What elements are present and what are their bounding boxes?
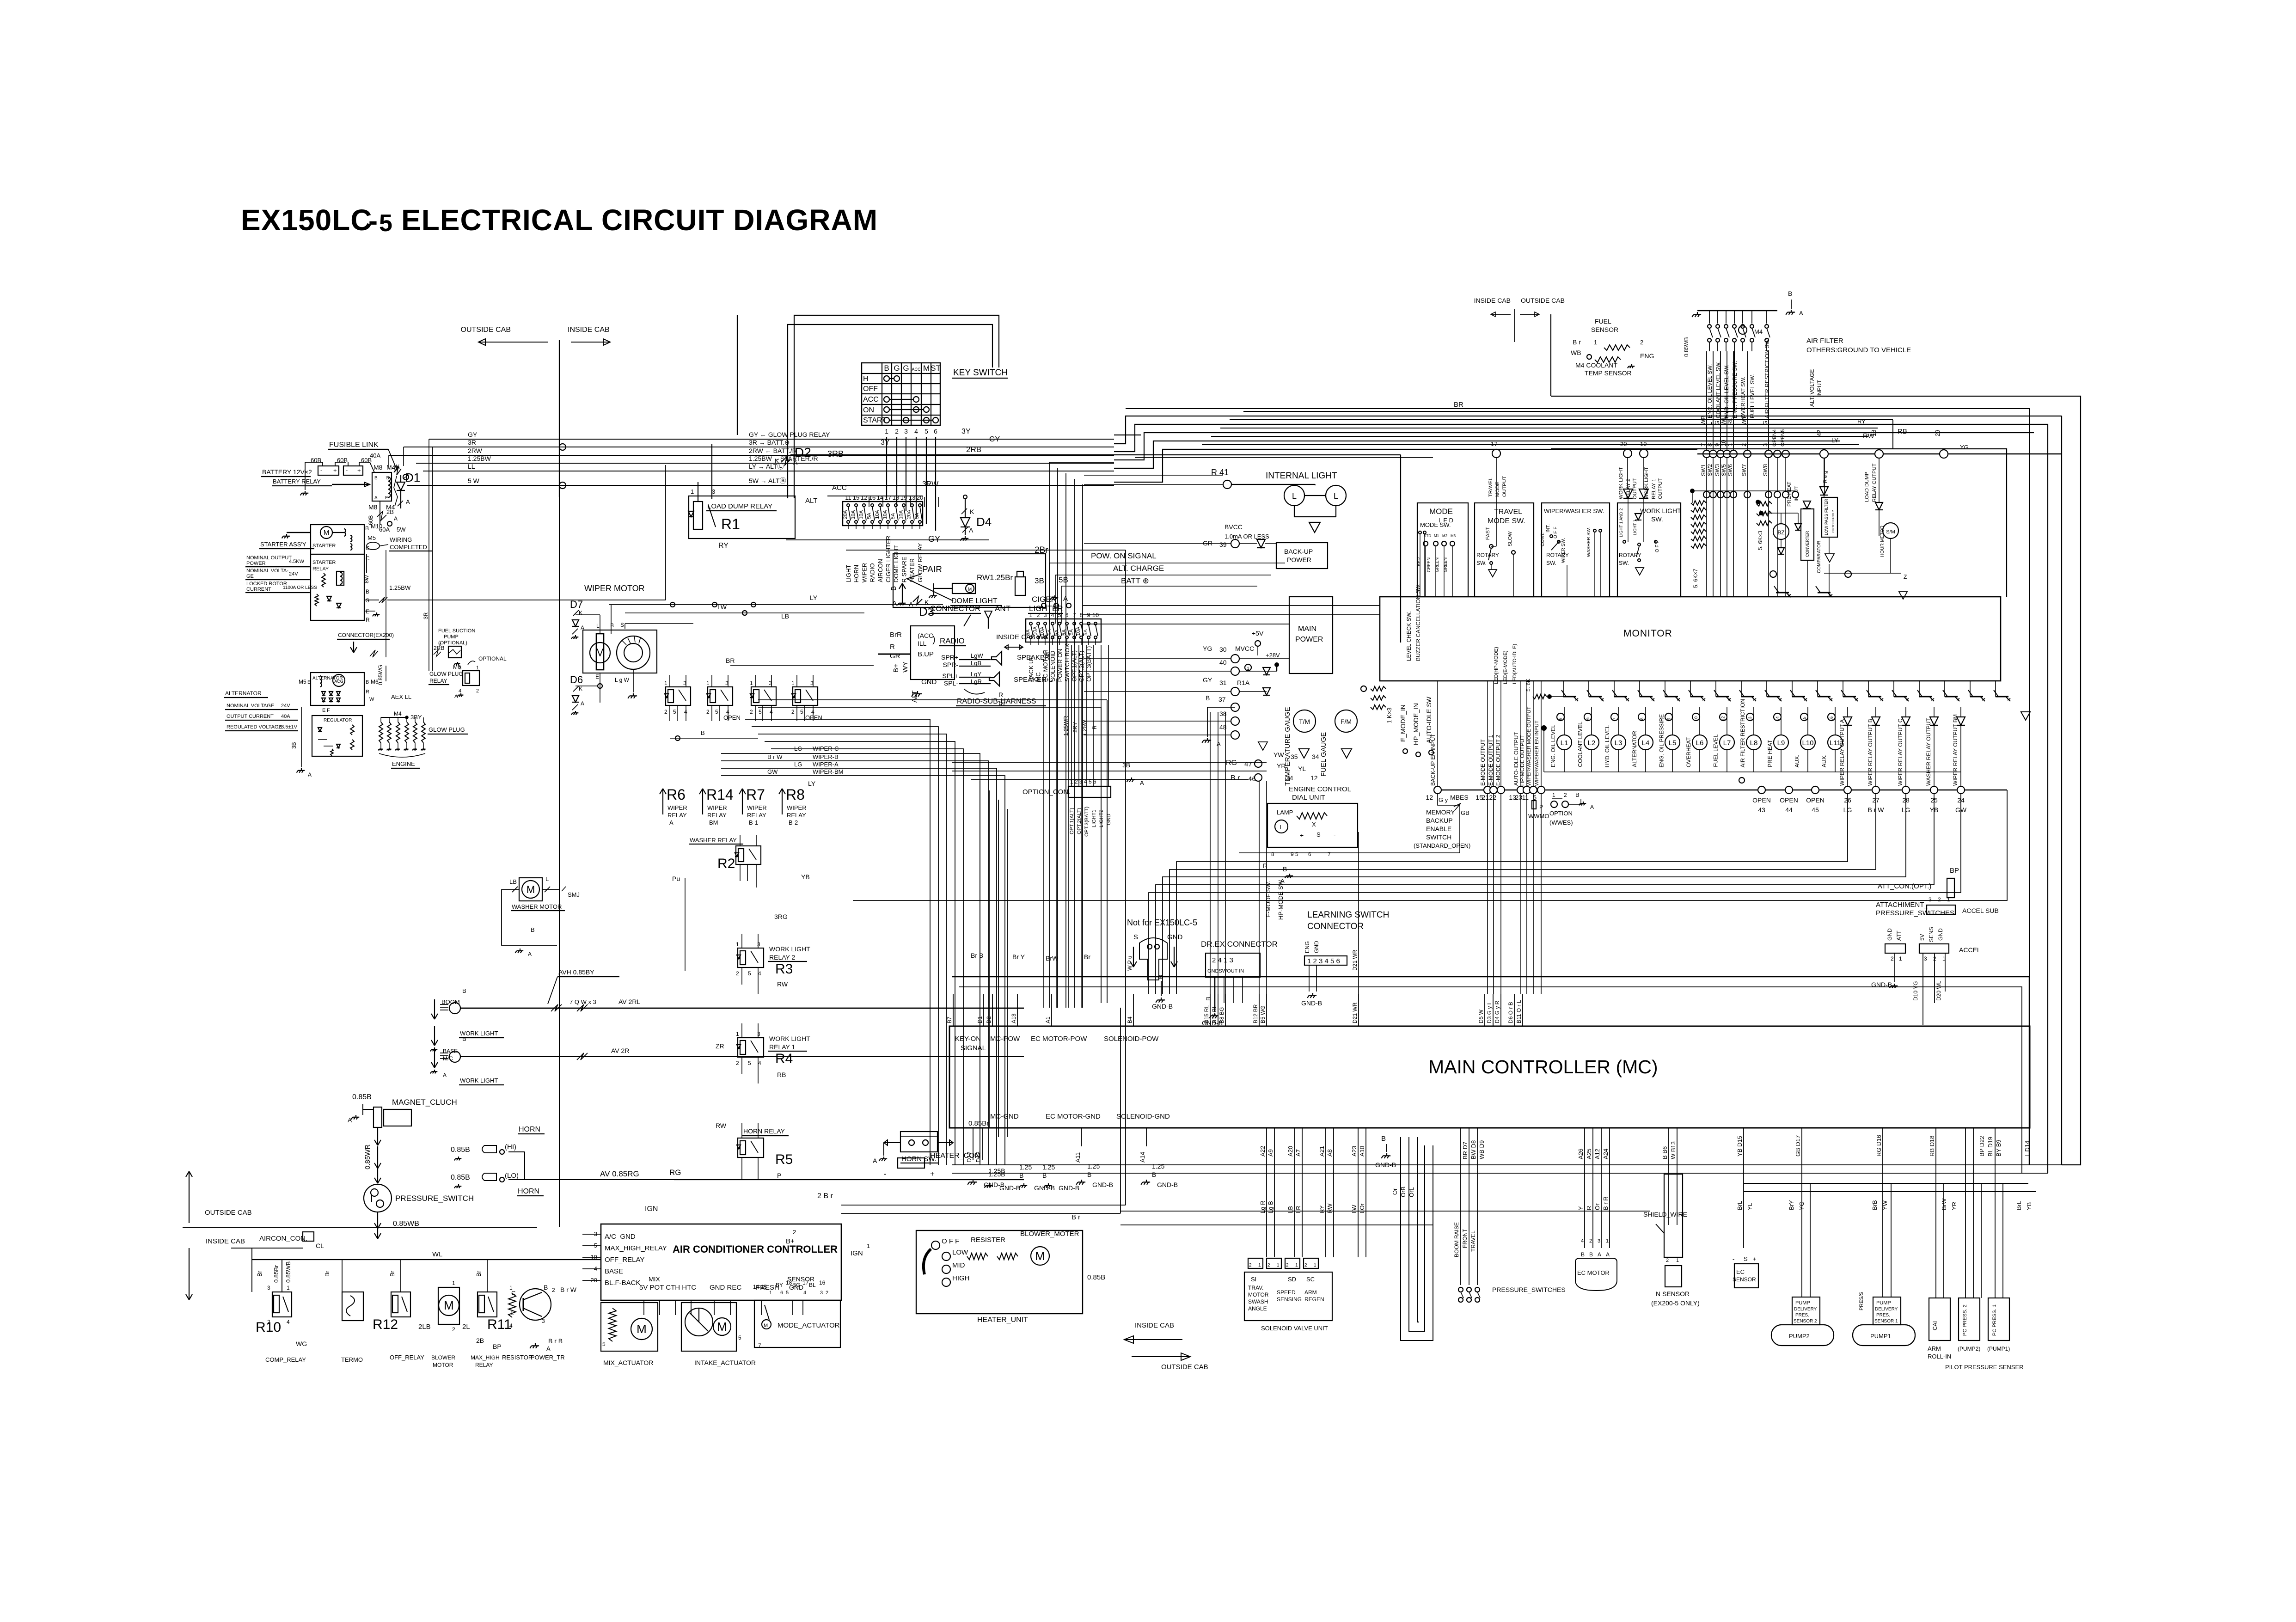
svg-text:R7: R7 [746, 786, 765, 803]
wire lower band rails [952, 1165, 2062, 1225]
svg-text:M: M [444, 1298, 454, 1312]
wire extra top band [1083, 409, 2029, 1026]
svg-text:LED(E-MODE): LED(E-MODE) [1503, 650, 1508, 684]
option WWES connectors [1439, 791, 1594, 826]
svg-text:OPEN5: OPEN5 [1780, 429, 1786, 447]
svg-text:WIPER: WIPER [787, 804, 807, 811]
svg-text:BATTERY RELAY: BATTERY RELAY [273, 478, 321, 485]
svg-text:ACCEL SUB: ACCEL SUB [1962, 907, 1999, 914]
svg-text:M: M [1035, 1249, 1045, 1263]
svg-text:K: K [579, 686, 582, 692]
svg-text:R5: R5 [775, 1152, 793, 1167]
svg-text:LY: LY [1831, 437, 1838, 444]
svg-text:1.25BW: 1.25BW [468, 455, 491, 462]
svg-text:MEMORY: MEMORY [1426, 808, 1455, 816]
svg-text:NOMINAL VOLTA-: NOMINAL VOLTA- [246, 568, 288, 574]
svg-text:11: 11 [845, 494, 851, 501]
svg-text:GB D17: GB D17 [1794, 1135, 1801, 1157]
svg-text:HIGH: HIGH [952, 1274, 970, 1282]
svg-text:5A: 5A [890, 513, 896, 519]
svg-text:SOLENOID-GND: SOLENOID-GND [1116, 1113, 1170, 1120]
svg-text:20A: 20A [843, 510, 848, 519]
svg-text:5V: 5V [1919, 934, 1925, 941]
svg-text:E-MODE OUTPUT: E-MODE OUTPUT [1480, 739, 1486, 786]
svg-text:13: 13 [909, 494, 915, 501]
svg-text:2: 2 [1589, 1238, 1592, 1244]
fusible link [328, 441, 409, 506]
svg-text:2: 2 [664, 709, 667, 715]
svg-text:(PUMP1): (PUMP1) [1987, 1346, 2010, 1352]
svg-text:GLOW PLUG: GLOW PLUG [429, 671, 463, 677]
svg-text:ATT: ATT [1896, 930, 1902, 941]
svg-text:E: E [307, 679, 311, 685]
svg-text:X: X [1312, 821, 1316, 828]
svg-text:0.85WB: 0.85WB [393, 1220, 419, 1228]
wiper relay output diodes [1839, 707, 1965, 786]
svg-text:1: 1 [867, 1243, 870, 1249]
svg-text:POW. ON SIGNAL: POW. ON SIGNAL [1091, 551, 1157, 560]
svg-text:3BY: 3BY [410, 714, 422, 721]
svg-text:M8: M8 [373, 464, 383, 471]
svg-text:GY: GY [928, 534, 940, 544]
svg-text:+: + [930, 1169, 935, 1178]
svg-text:IGN: IGN [645, 1205, 658, 1213]
svg-text:RELAY 1: RELAY 1 [1651, 479, 1657, 499]
converter pre-heat input [1756, 482, 1829, 597]
svg-text:ACC: ACC [832, 484, 847, 492]
svg-text:2L: 2L [462, 1323, 470, 1331]
wire cab divider extension [559, 497, 560, 1227]
svg-text:LY: LY [808, 780, 816, 787]
svg-text:A: A [1590, 804, 1594, 810]
svg-text:S: S [366, 597, 369, 604]
svg-text:MAX_HIGH: MAX_HIGH [471, 1354, 500, 1361]
svg-text:LB: LB [1287, 1206, 1294, 1213]
svg-text:5: 5 [602, 1341, 606, 1347]
radio and speakers [878, 604, 1056, 706]
svg-text:B: B [1152, 1171, 1156, 1178]
svg-text:4: 4 [287, 1319, 290, 1325]
svg-text:3RW: 3RW [922, 480, 939, 488]
svg-text:5A: 5A [1083, 629, 1089, 636]
svg-text:SIGNAL: SIGNAL [961, 1044, 986, 1052]
svg-text:MIX_ACTUATOR: MIX_ACTUATOR [603, 1359, 653, 1366]
svg-text:3R: 3R [468, 439, 476, 446]
svg-text:RELAY: RELAY [475, 1362, 493, 1368]
svg-text:2RB: 2RB [966, 445, 981, 454]
svg-text:WORK LIGHT: WORK LIGHT [1618, 467, 1624, 499]
svg-text:3R → BATT.⊕: 3R → BATT.⊕ [749, 439, 790, 446]
svg-text:L5: L5 [1669, 739, 1677, 747]
svg-text:OPEN: OPEN [1780, 796, 1798, 804]
svg-text:1: 1 [736, 1031, 739, 1037]
svg-text:2: 2 [736, 970, 739, 977]
svg-text:44: 44 [1785, 806, 1793, 814]
svg-text:16: 16 [819, 1279, 826, 1286]
svg-text:40A: 40A [281, 714, 290, 719]
svg-text:DELIVERY: DELIVERY [1875, 1307, 1898, 1312]
svg-text:M: M [527, 884, 535, 895]
svg-text:OUTPUT: OUTPUT [1632, 478, 1638, 500]
svg-text:RW: RW [716, 1122, 727, 1129]
title text [241, 203, 878, 237]
svg-text:L4: L4 [1642, 739, 1650, 747]
svg-text:PUMP2: PUMP2 [1789, 1333, 1810, 1340]
svg-text:COOLANT LEVEL: COOLANT LEVEL [1577, 722, 1584, 767]
svg-text:D4: D4 [976, 515, 992, 529]
svg-text:SHIELD_WIRE: SHIELD_WIRE [1643, 1211, 1687, 1218]
svg-text:ENG. OIL LEVEL: ENG. OIL LEVEL [1550, 724, 1556, 767]
svg-text:EC MOTOR-GND: EC MOTOR-GND [1046, 1113, 1101, 1120]
svg-text:S: S [1133, 933, 1138, 941]
svg-text:1: 1 [1277, 1263, 1280, 1268]
not-for-EX150LC-5 connector [1127, 918, 1197, 1010]
svg-text:0.85WB: 0.85WB [285, 1261, 292, 1283]
svg-text:B: B [701, 729, 705, 736]
svg-text:AUTO-IDLE OUTPUT: AUTO-IDLE OUTPUT [1513, 732, 1519, 786]
svg-text:PILOT PRESSURE SENSER: PILOT PRESSURE SENSER [1945, 1364, 2024, 1371]
svg-text:8: 8 [1271, 851, 1274, 857]
svg-text:B11 O r L: B11 O r L [1516, 1000, 1522, 1023]
svg-text:35: 35 [1291, 753, 1298, 760]
svg-text:SW.: SW. [1651, 515, 1663, 523]
svg-text:A22: A22 [1259, 1146, 1266, 1157]
svg-text:GY: GY [1203, 676, 1212, 684]
svg-text:A: A [1799, 310, 1803, 317]
svg-text:RELAY: RELAY [787, 812, 806, 819]
svg-text:2B: 2B [386, 508, 394, 515]
cab wall arrows bottom-left [183, 1171, 537, 1300]
svg-text:RELAY OUTPUT: RELAY OUTPUT [1872, 463, 1877, 502]
svg-text:ANT: ANT [995, 604, 1010, 613]
svg-text:BrR: BrR [890, 631, 902, 639]
svg-text:DELIVERY: DELIVERY [1794, 1307, 1817, 1312]
svg-text:OUTSIDE CAB: OUTSIDE CAB [461, 326, 511, 334]
svg-text:SPL+: SPL+ [942, 672, 958, 679]
svg-text:EC: EC [1736, 1268, 1745, 1275]
intake actuator [681, 1303, 761, 1366]
svg-text:P: P [777, 1172, 781, 1179]
svg-text:B-1: B-1 [749, 819, 758, 826]
svg-text:2: 2 [1249, 1263, 1252, 1268]
svg-text:ON: ON [863, 406, 874, 414]
svg-text:B: B [365, 525, 369, 532]
svg-text:A24: A24 [1602, 1149, 1609, 1159]
svg-text:B: B [884, 364, 889, 373]
svg-text:REGULATOR: REGULATOR [324, 718, 352, 723]
svg-text:WB: WB [1571, 349, 1581, 356]
mode switch box [1416, 503, 1468, 597]
svg-text:WIPER: WIPER [861, 563, 868, 583]
svg-text:5A: 5A [1069, 629, 1074, 635]
svg-text:A: A [1217, 741, 1221, 747]
svg-text:COMPLETED: COMPLETED [390, 544, 427, 551]
svg-text:A10: A10 [1359, 1146, 1365, 1157]
svg-text:1: 1 [706, 680, 710, 686]
svg-text:W P u: W P u [1127, 956, 1133, 971]
svg-text:2: 2 [1304, 1263, 1307, 1268]
svg-text:0.85B: 0.85B [352, 1093, 372, 1101]
svg-text:3Y: 3Y [881, 439, 890, 447]
svg-text:BrL: BrL [2015, 1201, 2022, 1210]
svg-text:2: 2 [791, 709, 795, 715]
svg-text:LL: LL [468, 463, 475, 470]
svg-text:PRES/S: PRES/S [1859, 1292, 1864, 1310]
svg-text:OFF_RELAY: OFF_RELAY [390, 1354, 424, 1361]
svg-text:WASHER MOTOR: WASHER MOTOR [512, 903, 562, 910]
svg-text:SLOW: SLOW [1507, 531, 1513, 546]
svg-text:D4 G y R: D4 G y R [1494, 1000, 1500, 1023]
svg-text:WIPER: WIPER [747, 804, 767, 811]
svg-text:E: E [366, 608, 369, 615]
svg-text:2: 2 [1564, 792, 1567, 798]
svg-text:B: B [1575, 791, 1580, 798]
svg-text:ARM: ARM [1928, 1345, 1941, 1352]
svg-text:W: W [369, 697, 374, 702]
wire WL rail [252, 1248, 601, 1292]
svg-text:A: A [581, 700, 584, 707]
solenoid valve unit [1244, 1258, 1332, 1332]
svg-text:4: 4 [459, 688, 461, 694]
svg-text:A21: A21 [1318, 1146, 1325, 1157]
svg-text:R: R [1586, 1206, 1592, 1210]
svg-text:WORK LIGHT: WORK LIGHT [1640, 507, 1681, 514]
svg-text:ACG: ACG [334, 679, 343, 684]
svg-text:PUMP: PUMP [1876, 1300, 1891, 1306]
svg-text:MBES: MBES [1450, 794, 1469, 801]
diode D2 [775, 445, 844, 466]
svg-text:FUEL: FUEL [1595, 318, 1611, 325]
svg-text:12: 12 [1310, 774, 1318, 782]
main power [1202, 597, 1333, 750]
svg-text:5: 5 [925, 428, 928, 435]
svg-text:11: 11 [1522, 794, 1529, 801]
svg-text:B r: B r [1071, 1213, 1080, 1221]
svg-text:FUEL SUCTION: FUEL SUCTION [438, 628, 475, 634]
wire MC upper border pair [952, 977, 2029, 1173]
svg-text:B: B [366, 679, 369, 685]
svg-text:M: M [923, 364, 930, 373]
svg-text:ANGLE: ANGLE [1248, 1305, 1267, 1312]
svg-text:MIX: MIX [649, 1275, 661, 1283]
cab wall arrows bottom-center [1124, 1322, 1208, 1371]
svg-text:L: L [545, 875, 549, 882]
wire band A to right risers [737, 315, 2062, 1173]
svg-text:WG: WG [296, 1340, 307, 1347]
svg-text:ATT_CON.(OPT.): ATT_CON.(OPT.) [1878, 882, 1931, 890]
svg-text:+: + [1753, 1255, 1757, 1262]
svg-text:28.5±1V: 28.5±1V [278, 724, 298, 730]
svg-text:ALT. VOLTAGE: ALT. VOLTAGE [1809, 369, 1815, 407]
svg-text:BLOWER_MOTER: BLOWER_MOTER [1020, 1230, 1079, 1238]
svg-text:-: - [346, 467, 348, 474]
svg-text:FRONT: FRONT [1462, 1229, 1468, 1248]
svg-text:A: A [1606, 1251, 1610, 1258]
svg-text:WY: WY [1740, 416, 1747, 425]
svg-text:HORN: HORN [519, 1126, 540, 1133]
svg-text:2LB: 2LB [418, 1323, 431, 1331]
svg-text:BUZZER CANCELLATION SW.: BUZZER CANCELLATION SW. [1415, 583, 1421, 661]
svg-text:RY: RY [718, 542, 729, 550]
svg-text:M: M [764, 1323, 768, 1328]
svg-text:WIPER/WASHER EN INPUT: WIPER/WASHER EN INPUT [1534, 720, 1540, 786]
svg-text:INSIDE CAB: INSIDE CAB [206, 1237, 245, 1245]
svg-text:R1A: R1A [1237, 679, 1250, 686]
svg-text:E-MODE OUTPUT 1: E-MODE OUTPUT 1 [1488, 734, 1494, 786]
svg-text:4: 4 [758, 1060, 761, 1066]
svg-text:39: 39 [1219, 541, 1227, 548]
svg-text:K: K [970, 508, 974, 515]
svg-text:B-2: B-2 [789, 819, 798, 826]
svg-text:OPEN: OPEN [1806, 796, 1825, 804]
svg-text:1: 1 [1899, 955, 1902, 962]
svg-text:7: 7 [1612, 718, 1617, 720]
svg-text:Br: Br [324, 1270, 331, 1277]
svg-text:1: 1 [664, 680, 667, 686]
svg-text:A: A [669, 819, 673, 826]
svg-text:WIPER/WASHER SW.: WIPER/WASHER SW. [1544, 508, 1604, 514]
svg-text:4: 4 [758, 970, 761, 977]
svg-text:1: 1 [476, 665, 479, 671]
svg-text:DIAL UNIT: DIAL UNIT [1292, 794, 1325, 802]
svg-text:D7: D7 [570, 599, 583, 610]
svg-text:19: 19 [900, 494, 907, 501]
svg-text:D2: D2 [795, 445, 811, 459]
EC sensor [1733, 1128, 1758, 1288]
svg-text:43: 43 [1758, 806, 1765, 814]
svg-text:NOMINAL OUTPUT: NOMINAL OUTPUT [246, 555, 292, 561]
svg-text:A9: A9 [1267, 1149, 1274, 1157]
svg-text:S: S [386, 476, 389, 481]
svg-text:OPEN: OPEN [805, 714, 822, 721]
svg-text:SOLENOID: SOLENOID [1049, 651, 1056, 682]
svg-text:S/M: S/M [1886, 529, 1895, 535]
svg-text:5: 5 [748, 1060, 751, 1066]
svg-text:GND-B: GND-B [1092, 1181, 1113, 1188]
svg-text:A11: A11 [1074, 1152, 1081, 1163]
svg-text:2: 2 [452, 1326, 455, 1333]
svg-text:GR: GR [1203, 539, 1212, 547]
svg-text:AIR FILTER: AIR FILTER [1806, 337, 1843, 345]
pressure switches (boom raise/front/travel) [1375, 1128, 1566, 1340]
svg-text:0.85WR: 0.85WR [364, 1145, 372, 1169]
svg-text:L2: L2 [1588, 739, 1596, 747]
svg-text:3RG: 3RG [774, 913, 788, 920]
svg-text:WASHER SW.: WASHER SW. [1586, 527, 1592, 557]
svg-text:+: + [1300, 832, 1304, 839]
svg-text:SW.: SW. [1476, 560, 1487, 566]
svg-text:YR: YR [1277, 762, 1286, 770]
svg-text:ENG. OIL PRESSIRE: ENG. OIL PRESSIRE [1658, 714, 1665, 768]
svg-text:GB: GB [1461, 809, 1469, 816]
cab divider top right [1474, 297, 1565, 342]
svg-text:A1: A1 [1045, 1016, 1051, 1023]
svg-text:3R: 3R [422, 612, 429, 619]
svg-text:MODE: MODE [1495, 482, 1500, 497]
wire wiper output feeds right [1824, 458, 1825, 496]
svg-text:GND: GND [1886, 928, 1893, 941]
svg-text:3: 3 [757, 941, 760, 948]
svg-text:MC: MC [1035, 672, 1042, 681]
svg-text:RESISTOR: RESISTOR [502, 1354, 533, 1361]
svg-text:4: 4 [803, 1290, 806, 1296]
svg-text:RADIO: RADIO [869, 563, 876, 582]
svg-text:CONNECTOR: CONNECTOR [1307, 922, 1364, 931]
svg-text:21: 21 [1482, 794, 1489, 801]
svg-text:PRE HEAT: PRE HEAT [1767, 740, 1773, 767]
svg-text:37: 37 [1218, 696, 1226, 703]
svg-text:2 B r: 2 B r [817, 1192, 833, 1200]
svg-text:B r W: B r W [560, 1286, 577, 1293]
main controller MC box [949, 1026, 2030, 1128]
svg-text:0.85B: 0.85B [451, 1146, 470, 1154]
svg-text:GND: GND [1313, 941, 1320, 953]
svg-text:24V: 24V [289, 571, 298, 577]
svg-text:1: 1 [736, 941, 739, 948]
svg-text:LOW PASS FILTER: LOW PASS FILTER [1824, 498, 1829, 535]
svg-text:N SENSOR: N SENSOR [1656, 1290, 1690, 1298]
svg-text:BY B9: BY B9 [1995, 1139, 2002, 1157]
learning switch connector [1301, 910, 1389, 1007]
cab divider (outside/inside) [461, 326, 610, 497]
svg-text:GREEN: GREEN [1435, 557, 1439, 572]
svg-text:F: F [327, 708, 330, 713]
svg-text:RESISTER: RESISTER [971, 1236, 1005, 1244]
svg-text:WORK LIGHT: WORK LIGHT [769, 1035, 810, 1042]
svg-text:WIPER RELAY OUTPUT B: WIPER RELAY OUTPUT B [1867, 719, 1874, 786]
svg-text:BACK-UP: BACK-UP [1284, 548, 1313, 555]
svg-text:L: L [596, 623, 600, 629]
svg-text:GND-B: GND-B [1152, 1003, 1173, 1010]
svg-text:OPTION: OPTION [1549, 810, 1573, 817]
svg-text:B: B [374, 476, 378, 481]
svg-text:0.85Br: 0.85Br [273, 1265, 280, 1283]
svg-text:INSIDE CAB: INSIDE CAB [568, 326, 610, 334]
svg-text:1.25: 1.25 [1087, 1163, 1100, 1170]
svg-text:): ) [932, 635, 936, 645]
svg-text:20: 20 [917, 494, 923, 501]
svg-text:B r: B r [1231, 774, 1240, 782]
svg-text:HYD. OIL LEVEL: HYD. OIL LEVEL [1604, 725, 1610, 767]
svg-text:14 15: 14 15 [753, 1284, 767, 1290]
svg-text:H: H [863, 375, 869, 383]
svg-text:WIPER RELAY OUTPUT C: WIPER RELAY OUTPUT C [1897, 718, 1904, 786]
svg-text:WIPER SW.: WIPER SW. [1561, 538, 1566, 563]
svg-text:(STANDARD_OPEN): (STANDARD_OPEN) [1414, 842, 1470, 849]
svg-text:(WWES): (WWES) [1549, 819, 1573, 826]
svg-text:WIPER: WIPER [707, 804, 727, 811]
svg-text:1.25WR: 1.25WR [1063, 716, 1069, 736]
diode D4 [961, 495, 992, 541]
svg-text:5: 5 [1058, 612, 1061, 618]
svg-text:E-MODE SW.: E-MODE SW. [1265, 881, 1272, 918]
svg-text:INTERNAL LIGHT: INTERNAL LIGHT [1266, 471, 1337, 481]
svg-text:FAST: FAST [1485, 527, 1491, 540]
svg-text:1: 1 [1552, 792, 1555, 798]
heater unit [916, 1213, 1105, 1324]
svg-text:RELAY: RELAY [707, 812, 727, 819]
svg-text:WIPER-A: WIPER-A [813, 761, 839, 768]
svg-text:0.85B: 0.85B [451, 1174, 470, 1181]
svg-text:B.UP: B.UP [918, 650, 934, 658]
svg-text:C: C [511, 1290, 515, 1297]
svg-text:15: 15 [853, 494, 859, 501]
svg-text:WORK LIGHT: WORK LIGHT [769, 945, 810, 953]
svg-text:BY: BY [776, 1282, 783, 1288]
svg-text:L g W: L g W [615, 677, 630, 683]
work light relay 2 R3 [736, 913, 810, 994]
svg-text:OUTPUT: OUTPUT [1502, 476, 1507, 497]
